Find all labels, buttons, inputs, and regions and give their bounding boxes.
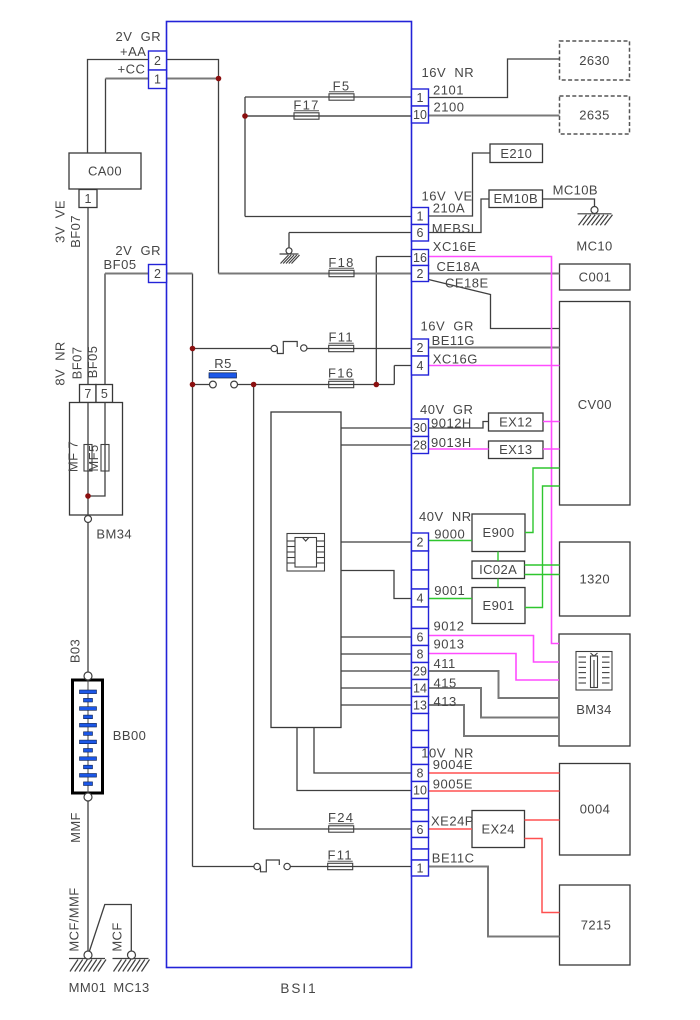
svg-text:2: 2 — [417, 341, 424, 355]
svg-text:9012H: 9012H — [431, 416, 472, 431]
svg-text:MMF: MMF — [68, 812, 83, 843]
svg-text:F11: F11 — [328, 848, 353, 863]
svg-text:BF05: BF05 — [104, 257, 137, 272]
svg-text:2100: 2100 — [434, 100, 465, 115]
svg-text:1: 1 — [417, 861, 424, 875]
svg-text:3V VE: 3V VE — [53, 200, 68, 243]
svg-text:XC16G: XC16G — [433, 352, 478, 367]
svg-text:F5: F5 — [333, 79, 351, 94]
svg-text:B03: B03 — [68, 639, 83, 663]
svg-text:8: 8 — [417, 647, 424, 661]
svg-text:MCF/MMF: MCF/MMF — [67, 887, 82, 951]
svg-text:MCF: MCF — [110, 922, 125, 951]
svg-text:CA00: CA00 — [88, 164, 122, 179]
svg-text:14: 14 — [413, 681, 427, 695]
svg-text:2V GR: 2V GR — [116, 29, 162, 44]
svg-text:EX24: EX24 — [481, 822, 514, 837]
svg-text:1: 1 — [417, 91, 424, 105]
svg-text:2630: 2630 — [579, 53, 610, 68]
svg-text:E901: E901 — [483, 598, 515, 613]
svg-text:BE11C: BE11C — [432, 851, 475, 866]
svg-text:8: 8 — [417, 766, 424, 780]
svg-text:0004: 0004 — [580, 802, 611, 817]
svg-text:CE18E: CE18E — [445, 276, 489, 291]
svg-text:BF07: BF07 — [70, 347, 85, 380]
svg-text:13: 13 — [413, 698, 427, 712]
svg-text:9005E: 9005E — [433, 777, 473, 792]
svg-text:9001: 9001 — [434, 583, 465, 598]
svg-text:F18: F18 — [328, 255, 354, 270]
svg-text:F11: F11 — [329, 330, 354, 345]
svg-text:2: 2 — [417, 267, 424, 281]
svg-text:MC10: MC10 — [576, 239, 612, 254]
svg-text:411: 411 — [434, 656, 456, 671]
svg-text:E900: E900 — [483, 525, 515, 540]
svg-text:2635: 2635 — [579, 108, 610, 123]
svg-text:30: 30 — [413, 421, 427, 435]
svg-text:2V GR: 2V GR — [115, 243, 161, 258]
svg-text:415: 415 — [434, 675, 457, 690]
svg-text:CV00: CV00 — [578, 397, 612, 412]
svg-text:29: 29 — [413, 664, 427, 678]
svg-text:2: 2 — [154, 54, 161, 68]
svg-text:MC13: MC13 — [113, 980, 149, 995]
svg-text:6: 6 — [417, 226, 424, 240]
svg-text:7: 7 — [84, 387, 91, 401]
svg-text:BM34: BM34 — [576, 702, 612, 717]
svg-text:16V GR: 16V GR — [421, 319, 474, 334]
svg-text:9012: 9012 — [434, 619, 465, 634]
svg-text:1: 1 — [417, 209, 424, 223]
svg-text:XE24P: XE24P — [431, 814, 474, 829]
svg-text:9004E: 9004E — [433, 757, 473, 772]
svg-text:+CC: +CC — [118, 62, 146, 77]
svg-text:CE18A: CE18A — [437, 259, 481, 274]
svg-text:+AA: +AA — [120, 44, 146, 59]
svg-text:4: 4 — [417, 591, 424, 605]
svg-text:IC02A: IC02A — [479, 562, 517, 577]
svg-text:MC10B: MC10B — [553, 183, 598, 198]
svg-text:MM01: MM01 — [69, 980, 107, 995]
svg-text:MEBSI: MEBSI — [432, 221, 475, 236]
svg-text:BSI1: BSI1 — [280, 981, 317, 996]
svg-text:10: 10 — [413, 108, 427, 122]
svg-text:9000: 9000 — [434, 526, 465, 541]
svg-text:EM10B: EM10B — [493, 191, 538, 206]
svg-text:1: 1 — [154, 73, 161, 87]
svg-text:4: 4 — [417, 359, 424, 373]
svg-text:40V NR: 40V NR — [419, 509, 472, 524]
svg-text:2101: 2101 — [433, 83, 464, 98]
svg-text:BB00: BB00 — [113, 728, 146, 743]
svg-text:16: 16 — [413, 251, 427, 265]
svg-text:1: 1 — [85, 192, 92, 206]
svg-text:7215: 7215 — [581, 918, 612, 933]
svg-text:10: 10 — [413, 783, 427, 797]
svg-text:9013: 9013 — [434, 637, 465, 652]
svg-text:28: 28 — [413, 438, 427, 452]
svg-text:5: 5 — [101, 387, 108, 401]
svg-text:F16: F16 — [328, 366, 354, 381]
svg-text:413: 413 — [434, 694, 457, 709]
svg-text:9013H: 9013H — [431, 435, 472, 450]
svg-text:C001: C001 — [579, 270, 612, 285]
svg-text:6: 6 — [417, 823, 424, 837]
svg-text:R5: R5 — [214, 356, 231, 371]
svg-text:EX13: EX13 — [499, 442, 532, 457]
svg-text:XC16E: XC16E — [433, 239, 477, 254]
svg-text:EX12: EX12 — [499, 415, 532, 430]
svg-text:1320: 1320 — [580, 572, 611, 587]
svg-text:16V NR: 16V NR — [422, 65, 475, 80]
svg-text:BE11G: BE11G — [432, 333, 475, 348]
svg-text:2: 2 — [154, 267, 161, 281]
svg-text:MF5: MF5 — [86, 444, 101, 471]
svg-text:BM34: BM34 — [96, 527, 132, 542]
svg-text:E210: E210 — [500, 146, 532, 161]
svg-text:BF07: BF07 — [68, 215, 83, 248]
svg-text:MF 7: MF 7 — [66, 441, 81, 472]
svg-text:210A: 210A — [433, 201, 465, 216]
svg-text:8V NR: 8V NR — [53, 341, 68, 385]
svg-text:F24: F24 — [328, 810, 354, 825]
svg-text:BF05: BF05 — [85, 346, 100, 379]
svg-text:2: 2 — [417, 535, 424, 549]
svg-text:F17: F17 — [293, 98, 319, 113]
svg-text:6: 6 — [417, 630, 424, 644]
